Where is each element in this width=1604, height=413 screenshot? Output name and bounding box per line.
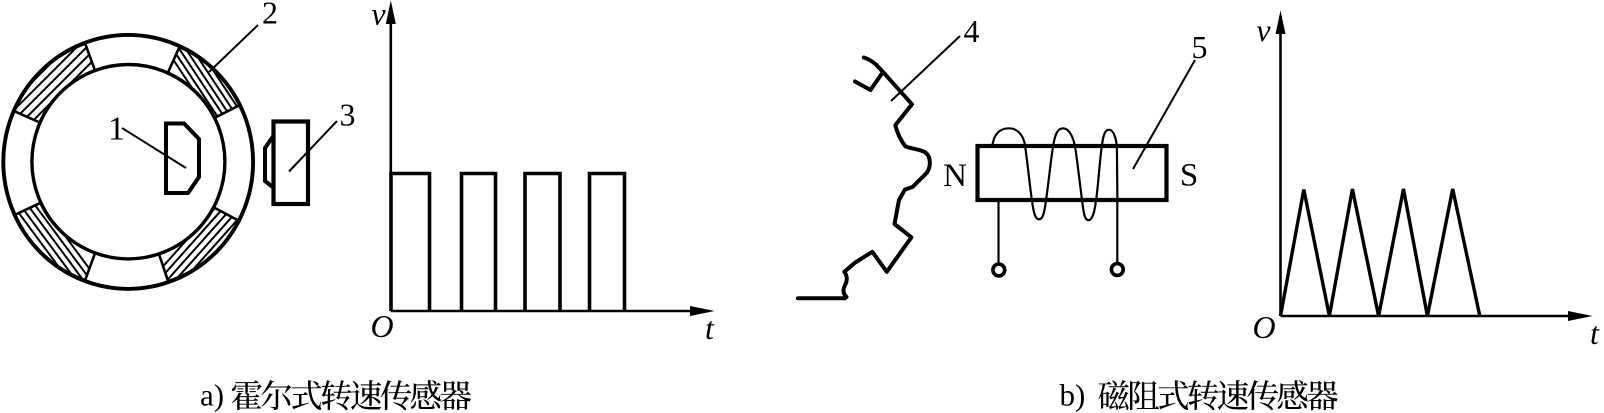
svg-text:5: 5 — [1192, 29, 1208, 65]
coil terminal wire right — [1116, 200, 1118, 262]
svg-text:2: 2 — [262, 0, 278, 31]
svg-text:N: N — [943, 158, 967, 194]
leader line for label 5 — [1133, 60, 1195, 169]
caption a: Chinese text 霍尔式转速传感器 — [232, 380, 471, 410]
svg-text:a): a) — [200, 378, 224, 413]
magnet segment NE (hatched) — [145, 0, 264, 167]
pickup coil 5 (winding around magnet) — [992, 128, 1117, 220]
svg-text:O: O — [370, 308, 393, 344]
leader line for label 4 — [891, 36, 960, 101]
magnet bar N-S (rectangle) — [978, 146, 1167, 200]
svg-text:S: S — [1180, 158, 1198, 194]
Hall sensor head 3 (rectangle body) — [274, 122, 309, 205]
graph a: square-wave pulse 3 — [525, 174, 560, 312]
sensor head nose (trapezoid toward ring) — [265, 135, 274, 188]
magnet segment SE (hatched) — [131, 168, 267, 321]
svg-text:v: v — [1256, 12, 1271, 48]
terminal circle left — [993, 264, 1005, 276]
svg-text:b): b) — [1060, 378, 1086, 413]
svg-text:v: v — [371, 0, 386, 32]
coil terminal wire left — [997, 200, 999, 263]
graph b: t axis (horizontal) — [1281, 315, 1588, 318]
magnet segment NW (hatched) — [0, 7, 126, 155]
leader line for label 2 — [209, 25, 258, 72]
Hall element 1 (D-shaped plate) — [166, 124, 199, 194]
graph a: square-wave pulse 2 — [462, 174, 496, 312]
graph a: v axis arrowhead — [386, 1, 396, 25]
svg-text:O: O — [1252, 309, 1275, 345]
gear wheel 4 (toothed edge outline) — [798, 58, 930, 299]
graph b: v axis arrowhead — [1276, 11, 1286, 35]
leader line for label 3 — [289, 121, 337, 172]
graph b: v axis (vertical) — [1279, 16, 1282, 316]
graph b: triangular waveform — [1281, 189, 1480, 316]
graph a: square-wave pulse 4 — [590, 174, 625, 312]
svg-text:3: 3 — [340, 97, 356, 133]
magnet segment SW (hatched) — [0, 161, 116, 323]
graph b: t axis arrowhead — [1568, 311, 1593, 321]
caption b: Chinese text 磁阻式转速传感器 — [1098, 380, 1337, 410]
terminal circle right — [1111, 264, 1123, 276]
svg-text:t: t — [705, 310, 715, 346]
graph a: t axis arrowhead — [690, 306, 715, 316]
graph a: square-wave pulse 1 — [391, 174, 430, 312]
leader line for label 1 — [122, 128, 186, 168]
svg-text:4: 4 — [964, 13, 980, 49]
svg-text:t: t — [1590, 315, 1600, 351]
graph a: t axis (horizontal) — [391, 310, 709, 313]
rotor ring inner circle — [32, 65, 225, 259]
rotor ring outer circle — [3, 35, 253, 289]
graph a: v axis (vertical) — [389, 6, 392, 311]
